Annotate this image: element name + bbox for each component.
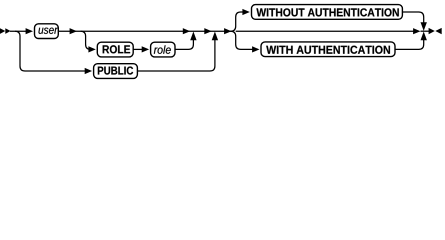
arrowhead main line before second split bbox=[224, 28, 231, 34]
label WITHOUT AUTHENTICATION bbox=[256, 8, 398, 16]
wire role box up-merge into main line bbox=[175, 36, 193, 49]
arrowhead up-merge from role row bbox=[190, 32, 196, 41]
arrowhead main line before role merge bbox=[183, 28, 190, 34]
arrowhead into PUBLIC box bbox=[85, 68, 92, 74]
wire second split down to WITH row bbox=[231, 31, 253, 49]
label user bbox=[39, 28, 58, 34]
arrowhead main line before PUBLIC merge bbox=[204, 28, 211, 34]
wire main line from start terminator to user arrow bbox=[10, 30, 27, 32]
wire PUBLIC box up-merge into main line bbox=[137, 36, 215, 71]
wire second split up to WITHOUT row bbox=[231, 12, 244, 31]
box ROLE bbox=[97, 42, 133, 57]
wire WITHOUT box down-merge into main line bbox=[402, 12, 423, 25]
arrowhead into ROLE box bbox=[88, 46, 95, 52]
arrowhead into role box bbox=[142, 46, 149, 52]
arrowhead into WITH box bbox=[252, 46, 259, 52]
label role bbox=[154, 45, 171, 53]
wire main line empty option through second group bbox=[236, 30, 414, 32]
label WITH AUTHENTICATION bbox=[266, 46, 390, 54]
wire main line junction to end terminator bbox=[421, 30, 430, 32]
arrowhead up-merge from WITH row bbox=[421, 32, 427, 41]
wire main line from user box to second split bbox=[58, 30, 231, 32]
end terminator arrowheads bbox=[429, 28, 435, 34]
wire ROLE box to role arrow bbox=[133, 48, 142, 50]
arrowhead main line before right junction bbox=[413, 28, 420, 34]
wire branch down after user box to ROLE row bbox=[81, 31, 91, 49]
box WITHOUT AUTHENTICATION bbox=[252, 5, 403, 20]
label ROLE bbox=[103, 45, 130, 53]
arrowhead after user box bbox=[70, 28, 77, 34]
box WITH AUTHENTICATION bbox=[261, 42, 395, 57]
arrowhead up-merge from PUBLIC row bbox=[212, 32, 218, 41]
label PUBLIC bbox=[98, 66, 133, 74]
wire branch down from start to PUBLIC row bbox=[15, 31, 85, 71]
box user bbox=[35, 24, 59, 39]
box PUBLIC bbox=[94, 64, 138, 79]
box role bbox=[151, 42, 175, 57]
arrowhead into user box bbox=[26, 28, 33, 34]
arrowhead down-merge from WITHOUT row bbox=[421, 22, 427, 31]
arrowhead into WITHOUT box bbox=[242, 9, 249, 15]
wire WITH box up-merge into main line bbox=[395, 36, 424, 49]
start terminator double arrowheads bbox=[0, 28, 5, 34]
